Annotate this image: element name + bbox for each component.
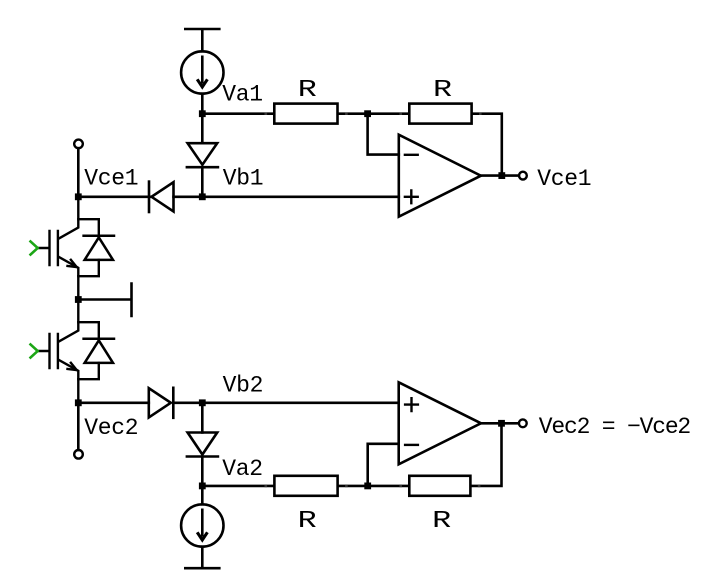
svg-text:R: R (433, 76, 452, 104)
svg-text:Vce1: Vce1 (537, 166, 591, 192)
svg-text:Vce1: Vce1 (84, 166, 138, 192)
svg-text:Vb1: Vb1 (223, 166, 264, 192)
svg-text:Vb2: Vb2 (223, 373, 264, 399)
svg-text:Vec2: Vec2 (84, 415, 138, 441)
svg-text:Vec2 = −Vce2: Vec2 = −Vce2 (539, 414, 691, 440)
svg-text:Va1: Va1 (222, 82, 263, 108)
svg-text:R: R (298, 76, 317, 104)
svg-text:Va2: Va2 (222, 456, 263, 482)
svg-text:R: R (432, 507, 451, 535)
svg-text:R: R (298, 507, 317, 535)
